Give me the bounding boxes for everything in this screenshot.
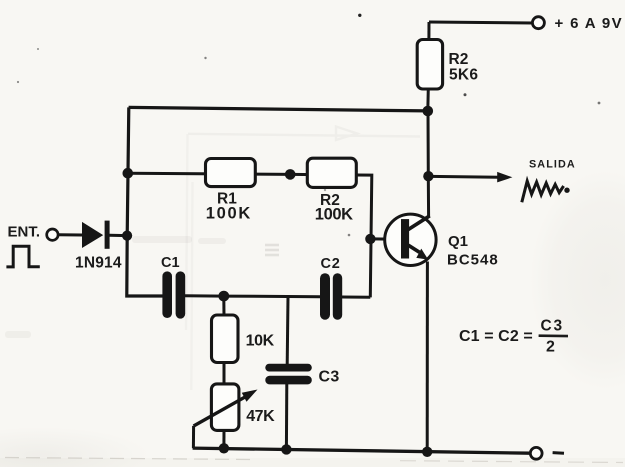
svg-text:R2: R2 — [449, 51, 469, 68]
svg-text:SALIDA: SALIDA — [529, 159, 576, 171]
svg-text:C3: C3 — [319, 369, 340, 386]
svg-text:+ 6 A 9V: + 6 A 9V — [555, 15, 623, 32]
svg-text:C2: C2 — [321, 256, 341, 272]
svg-text:47K: 47K — [246, 408, 275, 425]
svg-text:100K: 100K — [206, 204, 252, 222]
svg-text:10K: 10K — [246, 332, 275, 349]
svg-text:C3: C3 — [541, 318, 564, 335]
svg-text:5K6: 5K6 — [449, 66, 478, 83]
svg-text:2: 2 — [546, 339, 555, 356]
svg-text:ENT.: ENT. — [8, 224, 41, 241]
svg-text:Q1: Q1 — [448, 233, 468, 250]
svg-text:C1: C1 — [161, 255, 180, 271]
svg-text:BC548: BC548 — [447, 252, 499, 269]
svg-text:100K: 100K — [315, 205, 353, 223]
svg-text:1N914: 1N914 — [75, 254, 122, 271]
svg-text:C1 = C2 =: C1 = C2 = — [459, 328, 533, 345]
